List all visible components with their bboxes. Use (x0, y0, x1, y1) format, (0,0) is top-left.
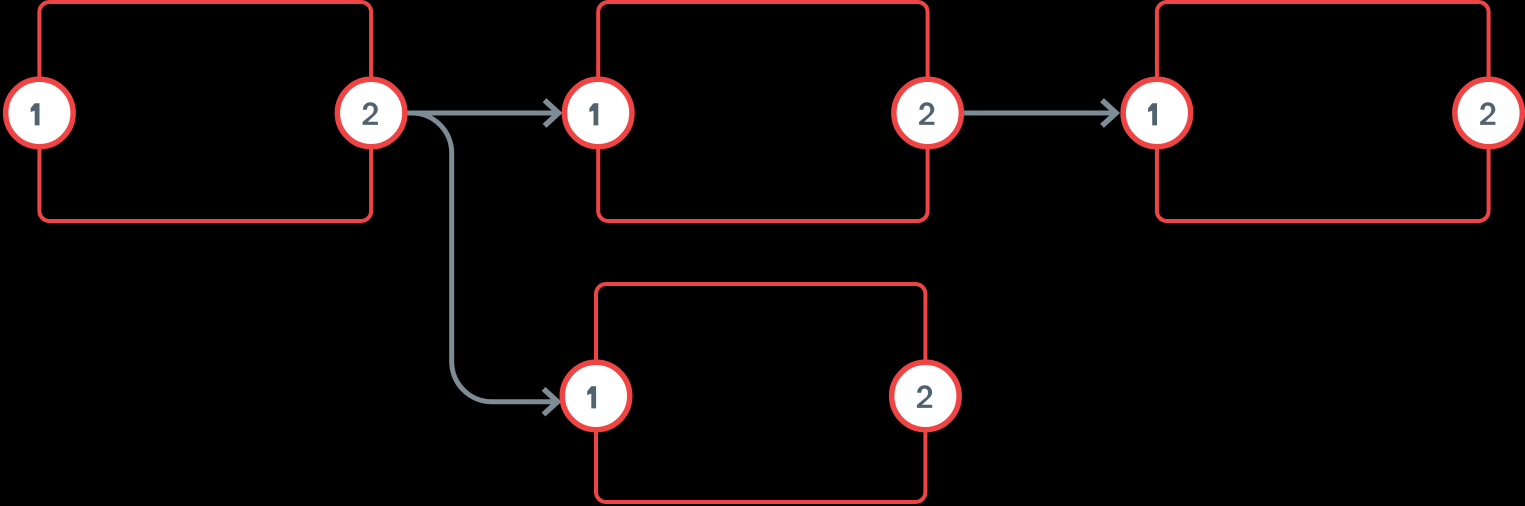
component U2 pin 1 (564, 79, 632, 147)
component U2 (598, 2, 927, 221)
component U1 pin 2 (337, 79, 405, 147)
component U4 pin 2 (892, 362, 960, 430)
wire W2 arrowhead (1102, 100, 1116, 126)
component U3 pin 1 (1123, 79, 1191, 147)
component U4 (596, 284, 925, 502)
component U3 (1157, 2, 1489, 221)
component U1 (39, 2, 371, 221)
wire W1 (408, 111, 558, 116)
wire W1 arrowhead (545, 100, 559, 126)
component U4 pin 1 (562, 362, 630, 430)
wire W3 (408, 113, 557, 402)
wire W3 arrowhead (544, 389, 558, 415)
component U3 pin 2 (1455, 79, 1523, 147)
wire W2 (964, 111, 1116, 116)
component U1 pin 1 (6, 79, 74, 147)
component U2 pin 2 (894, 79, 962, 147)
